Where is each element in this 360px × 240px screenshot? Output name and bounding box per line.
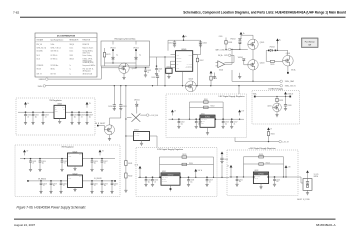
op-amp U0506 xyxy=(216,61,233,72)
svg-text:5+: 5+ xyxy=(70,68,72,70)
svg-text:SVL3: SVL3 xyxy=(70,55,74,57)
svg-text:1.8V Digital Supply Regulator: 1.8V Digital Supply Regulator xyxy=(157,148,183,151)
node SL_REG3D xyxy=(94,178,116,182)
diode VR0504 xyxy=(268,46,276,51)
capacitor C0520 xyxy=(235,176,243,186)
svg-text:.01: .01 xyxy=(114,185,116,187)
svg-text:.01: .01 xyxy=(45,116,47,118)
svg-text:C0516: C0516 xyxy=(225,122,229,124)
block 5V Regulator xyxy=(16,98,95,135)
wire inter-box rail xyxy=(215,164,230,178)
capacitor C0506 under U0505 xyxy=(151,74,159,86)
svg-text:3V: 3V xyxy=(102,151,104,153)
svg-text:LVZIB_IN: LVZIB_IN xyxy=(287,94,293,96)
svg-text:C0502: C0502 xyxy=(35,115,39,117)
transistor Q0502 xyxy=(105,125,115,135)
svg-text:Q0531: Q0531 xyxy=(267,105,271,107)
wire from regulator to shunt block xyxy=(297,177,304,183)
node BATT_COM_OUT connector xyxy=(216,48,240,51)
resistor R0512 feedback xyxy=(190,106,224,109)
power arrow TX branch xyxy=(267,127,272,131)
transistor Q0501 xyxy=(248,39,265,49)
svg-text:OUT: OUT xyxy=(79,154,82,156)
svg-text:C0504: C0504 xyxy=(168,43,172,45)
wire 3V rail 1 xyxy=(20,158,115,159)
svg-text:CBO 7B5 v5: CBO 7B5 v5 xyxy=(51,51,59,53)
capacitor C0530 xyxy=(59,180,67,193)
svg-text:GND: GND xyxy=(68,156,71,158)
svg-text:B+: B+ xyxy=(279,40,281,42)
svg-text:5.0Bu: 5.0Bu xyxy=(51,44,55,46)
IC U0503 current monitor xyxy=(134,130,150,141)
ground under U0512 xyxy=(170,185,172,191)
svg-text:5V: 5V xyxy=(27,151,29,153)
capacitor C0527 xyxy=(100,158,108,171)
table DC DISTRIBUTION xyxy=(35,33,97,77)
node SWB+_SW output connector xyxy=(280,84,297,87)
svg-text:VIN VOUT: VIN VOUT xyxy=(162,177,168,179)
capacitor C0511 xyxy=(119,86,127,111)
svg-text:SUPERVSR: SUPERVSR xyxy=(185,67,192,69)
wire bottom-mid rail xyxy=(138,177,215,178)
capacitor C0523 xyxy=(29,158,37,171)
svg-text:R0506: R0506 xyxy=(213,78,217,80)
svg-text:10u: 10u xyxy=(276,181,278,183)
svg-text:+4.6V Digital Supply Regulator: +4.6V Digital Supply Regulator xyxy=(248,147,276,150)
svg-text:PG GND: PG GND xyxy=(162,181,167,183)
pad SW_B+ below Q0505 xyxy=(287,66,296,74)
wire U0503 connections xyxy=(126,136,157,148)
node SH_REG3D xyxy=(27,179,47,182)
svg-text:SH_M_SHUNT: SH_M_SHUNT xyxy=(95,123,105,125)
svg-text:.01: .01 xyxy=(94,185,96,187)
svg-text:5VB_TX: 5VB_TX xyxy=(37,73,42,75)
block Emergency Sense Bias xyxy=(101,39,150,66)
svg-text:C0521: C0521 xyxy=(147,70,151,72)
wire centre main rail xyxy=(169,119,245,120)
svg-text:5V+3: 5V+3 xyxy=(37,55,41,57)
power arrow bottom-right right xyxy=(285,165,291,177)
capacitor C0501 xyxy=(24,112,32,125)
pad LVZIB_IN right xyxy=(287,94,293,98)
svg-text:B+: B+ xyxy=(185,36,187,38)
svg-text:8VO T.B: 8VO T.B xyxy=(51,73,56,75)
pad U0513 pins xyxy=(253,176,269,178)
capacitor C0510 xyxy=(108,86,116,111)
capacitor C0515 xyxy=(151,177,159,187)
IC U0505 voltage supervisor xyxy=(176,49,193,72)
header rule xyxy=(20,17,346,18)
svg-text:VCC: VCC xyxy=(176,54,179,56)
ground under U0501 xyxy=(58,119,61,124)
pad SWB+ LVZIB left xyxy=(253,94,257,98)
capacitor C0517 xyxy=(230,119,238,129)
svg-text:C0518: C0518 xyxy=(190,180,194,182)
wire stub from rail into regulator xyxy=(238,86,240,94)
svg-text:C0525: C0525 xyxy=(64,161,68,163)
power arrow 3V left xyxy=(23,150,28,156)
svg-text:SENSE1: SENSE1 xyxy=(176,58,181,60)
svg-text:5V: 5V xyxy=(270,128,272,130)
svg-text:SWB+_SW_5V: SWB+_SW_5V xyxy=(285,86,297,88)
svg-text:CR0501: CR0501 xyxy=(134,99,140,101)
header title xyxy=(183,10,346,14)
ground op-amp xyxy=(213,73,216,79)
svg-text:Q0501: Q0501 xyxy=(260,42,265,44)
resistor R0541 xyxy=(125,161,133,166)
capacitor C0508 xyxy=(77,112,85,125)
svg-text:.1u: .1u xyxy=(158,70,160,72)
node L+1.8V connector xyxy=(146,114,159,117)
svg-text:3V Regulator: 3V Regulator xyxy=(61,146,73,149)
svg-text:Q0503: Q0503 xyxy=(260,62,265,64)
power B+ arrow sense xyxy=(276,38,281,43)
svg-text:SW_B+_CNTL: SW_B+_CNTL xyxy=(218,55,228,57)
svg-text:.01: .01 xyxy=(233,123,235,125)
resistor R0508 pullup xyxy=(219,36,233,50)
svg-text:SMBUB (LSB),: SMBUB (LSB), xyxy=(83,60,93,62)
svg-text:7-82: 7-82 xyxy=(13,10,19,14)
svg-text:SW B+ 8(5.7.5): SW B+ 8(5.7.5) xyxy=(37,47,47,49)
svg-text:C0540: C0540 xyxy=(224,159,228,161)
svg-text:FUNCTION: FUNCTION xyxy=(83,40,90,42)
svg-text:5V (USB): 5V (USB) xyxy=(37,51,43,53)
svg-text:R0514: R0514 xyxy=(189,163,193,165)
svg-text:C0503: C0503 xyxy=(45,115,49,117)
wire emergency block bottom xyxy=(101,62,150,68)
svg-text:SW_B+: SW_B+ xyxy=(291,70,296,72)
svg-text:C0524: C0524 xyxy=(42,161,46,163)
ground under U0522 xyxy=(73,188,76,192)
svg-text:R0505: R0505 xyxy=(270,64,274,66)
power arrow centre left xyxy=(171,110,176,116)
capacitor C0526 xyxy=(90,158,98,171)
capacitor C0525 xyxy=(60,158,68,171)
svg-text:UEL23: UEL23 xyxy=(70,58,75,60)
wire sense top xyxy=(266,41,288,55)
capacitor C0536 xyxy=(284,97,292,111)
svg-text:C0533: C0533 xyxy=(104,183,108,185)
svg-text:GND: GND xyxy=(55,110,58,112)
svg-text:VIN VOUT: VIN VOUT xyxy=(254,176,260,178)
svg-text:C0526: C0526 xyxy=(94,161,98,163)
block 1.8V Digital Supply Regulator centre xyxy=(166,94,247,138)
resistor R0513 feedback xyxy=(160,154,214,177)
svg-text:SH_REG3D: SH_REG3D xyxy=(38,179,47,181)
svg-text:IN: IN xyxy=(68,154,69,156)
svg-text:10u: 10u xyxy=(35,116,37,118)
svg-text:Q0506: Q0506 xyxy=(189,79,194,81)
svg-text:C0532: C0532 xyxy=(94,183,98,185)
ground shunt column xyxy=(124,178,127,192)
svg-text:CVSBL/3S: CVSBL/3S xyxy=(37,65,44,67)
svg-text:IN: IN xyxy=(68,176,69,178)
svg-text:5V Regulator: 5V Regulator xyxy=(49,99,61,102)
svg-text:IN+ OUT: IN+ OUT xyxy=(134,133,139,135)
diode VR0521 xyxy=(110,41,118,63)
wire shunt column xyxy=(125,86,126,161)
svg-text:C0505: C0505 xyxy=(219,36,223,38)
wire Q0501 to Q0503 xyxy=(252,50,254,60)
transistor Q0503 xyxy=(248,60,265,70)
power arrow bottom-right left xyxy=(227,165,232,177)
svg-text:SELQ4: SELQ4 xyxy=(70,44,75,46)
svg-text:C0511: C0511 xyxy=(123,106,127,108)
capacitor C0529 xyxy=(49,180,57,193)
svg-text:Part Sense: Part Sense xyxy=(305,40,316,43)
capacitor C0522b inter-box xyxy=(220,158,228,163)
IC U0513 4.6V regulator xyxy=(253,170,268,183)
svg-text:C0512: C0512 xyxy=(181,122,185,124)
svg-text:1.8V: 1.8V xyxy=(241,111,244,113)
svg-text:5+: 5+ xyxy=(70,65,72,67)
svg-text:OUT1: OUT1 xyxy=(188,54,192,56)
power arrow shunt block xyxy=(306,170,318,178)
diode VR0522 xyxy=(133,41,141,63)
svg-text:4.6V: 4.6V xyxy=(288,166,291,168)
svg-text:C0536: C0536 xyxy=(288,105,292,107)
svg-text:C0529: C0529 xyxy=(53,183,57,185)
IC U0521 3V regulator A xyxy=(68,151,83,166)
svg-text:VR0502: VR0502 xyxy=(230,38,235,40)
ground under shunt block xyxy=(306,190,309,195)
page number 7-82 xyxy=(13,10,19,14)
svg-text:VR0521: VR0521 xyxy=(110,47,116,49)
pad U0512 pins xyxy=(160,177,181,179)
svg-text:R0541: R0541 xyxy=(128,163,132,165)
svg-text:.01: .01 xyxy=(198,123,200,125)
svg-text:R0508: R0508 xyxy=(228,42,232,44)
svg-text:EN FB: EN FB xyxy=(162,179,166,181)
capacitor C0531a xyxy=(0,0,1,1)
svg-text:.01: .01 xyxy=(63,185,65,187)
wire U0505 bottom stubs xyxy=(167,71,182,85)
svg-text:VR0522: VR0522 xyxy=(133,47,139,49)
capacitor C0524 xyxy=(38,158,46,171)
svg-text:10u: 10u xyxy=(94,163,96,165)
capacitor C0503 xyxy=(41,112,49,125)
capacitor C0512 xyxy=(177,119,185,129)
ground under U0513 xyxy=(259,184,262,189)
resistor R0521 xyxy=(103,48,110,66)
svg-text:C0521: C0521 xyxy=(276,179,280,181)
svg-text:OUT: OUT xyxy=(62,107,65,109)
node SW_B+_CNTL connector xyxy=(218,54,234,62)
power arrow with resistor R0506 xyxy=(210,71,218,86)
ground below Q0521 xyxy=(122,73,125,79)
capacitor C0514 xyxy=(144,177,152,187)
svg-text:R0542: R0542 xyxy=(128,176,132,178)
pad U0511 pins xyxy=(199,118,216,120)
svg-text:SHUNT_M_CONN: SHUNT_M_CONN xyxy=(297,199,310,201)
svg-text:C0530: C0530 xyxy=(63,183,67,185)
wire drain Q0501 to B+ xyxy=(241,35,253,39)
wire U0505 left pins xyxy=(171,55,176,68)
svg-text:GND: GND xyxy=(68,178,71,180)
svg-text:.01: .01 xyxy=(154,181,156,183)
svg-text:C0515: C0515 xyxy=(154,180,158,182)
svg-text:B+: B+ xyxy=(28,103,30,105)
ground under U0511 xyxy=(206,127,209,135)
svg-text:Q0505: Q0505 xyxy=(286,53,291,55)
svg-text:SENSE2: SENSE2 xyxy=(176,61,181,63)
svg-text:.01: .01 xyxy=(104,163,106,165)
ground under U0521 xyxy=(73,166,76,170)
svg-text:C0527: C0527 xyxy=(104,161,108,163)
footer rule xyxy=(14,219,336,220)
svg-text:C0509: C0509 xyxy=(89,115,93,117)
power B+ arrow above U0505 xyxy=(182,35,187,41)
block 4.6V Digital Supply Regulator xyxy=(227,147,298,195)
capacitor C0535 xyxy=(0,0,1,1)
capacitor C0519 xyxy=(205,177,213,187)
diode VR0503 xyxy=(238,57,248,65)
svg-text:U0504: U0504 xyxy=(167,66,171,68)
svg-text:5V: 5V xyxy=(174,111,176,113)
capacitor C0533 xyxy=(100,180,108,193)
svg-text:10u: 10u xyxy=(148,181,150,183)
capacitor C0504 xyxy=(168,40,176,47)
resistor R0516 feedback xyxy=(244,162,284,165)
capacitor C0502 xyxy=(31,112,39,125)
capacitor C0521 xyxy=(144,67,152,77)
wire op-amp output to gates xyxy=(231,49,240,64)
wire 3V rail 2 xyxy=(28,180,115,181)
svg-text:Schematics, Component Location: Schematics, Component Location Diagrams,… xyxy=(183,10,346,14)
svg-text:August 24, 2007: August 24, 2007 xyxy=(14,223,35,227)
power B+ arrow 5V in xyxy=(24,102,29,108)
resistor R0531 xyxy=(276,97,284,104)
transistor Q0505 xyxy=(283,53,294,66)
svg-text:EN: EN xyxy=(55,108,57,110)
svg-text:SV 5VB Bus: SV 5VB Bus xyxy=(51,65,59,67)
diode CR0501 xyxy=(134,99,140,113)
svg-text:C0510: C0510 xyxy=(108,106,112,108)
svg-text:10u: 10u xyxy=(53,185,55,187)
svg-text:EMERG: EMERG xyxy=(39,79,46,81)
svg-text:Figure 7-66. HUE4039A Power S: Figure 7-66. HUE4039A Power Supply Schem… xyxy=(17,206,87,210)
block 1.8V Digital Supply Regulator bottom xyxy=(136,148,217,197)
svg-text:6816538H01-A: 6816538H01-A xyxy=(316,223,336,227)
wire gate Q0501 xyxy=(240,48,248,50)
svg-text:U0506: U0506 xyxy=(219,70,223,72)
svg-text:C0508: C0508 xyxy=(81,115,85,117)
svg-text:10u: 10u xyxy=(104,185,106,187)
svg-text:5W: 5W xyxy=(308,45,311,47)
footer document number xyxy=(316,223,336,227)
svg-text:IN- GND: IN- GND xyxy=(134,135,139,137)
capacitor C0522 xyxy=(155,57,163,75)
svg-text:10u: 10u xyxy=(225,123,227,125)
svg-text:5V_PD: 5V_PD xyxy=(314,174,319,176)
svg-text:C0517: C0517 xyxy=(233,122,237,124)
svg-text:5V: 5V xyxy=(89,103,91,105)
power arrow LVZIB xyxy=(284,92,287,97)
svg-text:B+: B+ xyxy=(243,33,245,35)
svg-text:R0513: R0513 xyxy=(182,154,186,156)
svg-text:LVZIB_IN Supply: LVZIB_IN Supply xyxy=(269,89,283,91)
svg-text:10u: 10u xyxy=(74,116,76,118)
svg-text:GND: GND xyxy=(176,68,179,70)
svg-text:VR0504: VR0504 xyxy=(269,46,274,48)
svg-text:EN FB: EN FB xyxy=(254,178,258,180)
svg-text:TR2_LB, CP3_B,: TR2_LB, CP3_B, xyxy=(83,68,94,70)
capacitor C0521b xyxy=(273,176,281,186)
svg-text:C0519: C0519 xyxy=(209,180,213,182)
resistor R0515 feedback xyxy=(244,154,284,177)
svg-text:NCP565: NCP565 xyxy=(205,117,210,119)
svg-text:OUT: OUT xyxy=(79,176,82,178)
svg-text:A+: A+ xyxy=(117,54,119,57)
svg-text:FB: FB xyxy=(63,108,65,110)
svg-text:R0515: R0515 xyxy=(259,154,263,156)
capacitor C0507 xyxy=(70,112,78,125)
svg-text:C0523: C0523 xyxy=(32,161,36,163)
node SH_M_SHUNT xyxy=(95,123,105,130)
figure caption xyxy=(17,206,87,210)
svg-text:NCP5662: NCP5662 xyxy=(168,175,174,177)
IC U0522 3V regulator B xyxy=(68,173,83,187)
svg-text:.01: .01 xyxy=(27,116,29,118)
svg-text:R0532: R0532 xyxy=(271,134,275,136)
svg-text:C0520: C0520 xyxy=(239,179,243,181)
diode VR0502 xyxy=(230,37,241,50)
svg-text:C0501: C0501 xyxy=(27,115,31,117)
footer date xyxy=(14,223,35,227)
svg-text:.01: .01 xyxy=(32,163,34,165)
block LVZIB_IN Supply xyxy=(252,89,300,124)
ground under U0503 xyxy=(140,141,143,146)
svg-text:L+5V_TX: L+5V_TX xyxy=(282,142,289,144)
ground near diode cluster xyxy=(238,73,241,79)
transistor Q0506 pass device on rail xyxy=(185,79,196,92)
wire SWB+_RAW output xyxy=(232,70,294,83)
transistor Q0531 xyxy=(267,103,281,112)
svg-text:5+: 5+ xyxy=(70,73,72,75)
current sense cross xyxy=(127,114,146,122)
svg-text:C0506: C0506 xyxy=(151,77,155,79)
power arrow bottom-mid left xyxy=(135,163,142,177)
ground under Q0502 xyxy=(108,135,111,141)
svg-text:.01: .01 xyxy=(147,72,149,74)
svg-text:R0531: R0531 xyxy=(279,100,283,102)
svg-text:C0505: C0505 xyxy=(203,43,207,45)
svg-text:R0507: R0507 xyxy=(200,60,204,62)
block shunt connector xyxy=(303,179,312,191)
wire bottom-right rail xyxy=(229,176,297,177)
svg-text:1.8V Digital Supply Regulator: 1.8V Digital Supply Regulator xyxy=(218,95,244,98)
wire U0505 top loop xyxy=(168,40,201,55)
node L+5V_TX connector xyxy=(279,140,289,143)
svg-text:SL_REG3D: SL_REG3D xyxy=(94,178,103,180)
wire Q0502 drain xyxy=(110,111,121,125)
svg-text:Q0521: Q0521 xyxy=(132,68,137,70)
transistor Q0521 xyxy=(119,63,136,73)
resistor R0542 xyxy=(125,166,133,179)
svg-text:MR: MR xyxy=(176,64,178,66)
wire TX output xyxy=(235,138,279,143)
capacitor C0509 xyxy=(85,112,93,125)
svg-text:.01: .01 xyxy=(209,181,211,183)
capacitor C0534 xyxy=(110,180,118,193)
svg-text:10u: 10u xyxy=(89,116,91,118)
capacitor C0518 xyxy=(187,177,195,187)
svg-text:4B Bend SnioB: 4B Bend SnioB xyxy=(83,73,93,75)
svg-text:SWB+: SWB+ xyxy=(253,94,257,96)
svg-text:C0522: C0522 xyxy=(158,69,162,71)
resistor R0507 xyxy=(193,55,204,86)
svg-text:10u: 10u xyxy=(42,163,44,165)
